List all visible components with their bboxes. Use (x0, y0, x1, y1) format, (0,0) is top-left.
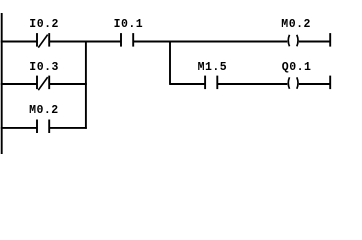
contact I0.2 (37, 33, 49, 48)
svg-text:I0.1: I0.1 (114, 18, 144, 31)
coil Q0.1 (288, 77, 298, 89)
right terminal bar rung1 (329, 33, 331, 47)
svg-text:M1.5: M1.5 (198, 61, 228, 74)
wire rung1 left (1, 41, 37, 43)
coil M0.2 (288, 35, 298, 47)
contact I0.1 (121, 33, 133, 47)
wire output rung2 to terminal (299, 83, 330, 85)
contact I0.3 (37, 76, 49, 91)
svg-text:M0.2: M0.2 (29, 104, 59, 117)
branch junction 1 (85, 41, 87, 129)
left power rail (1, 13, 3, 154)
wire rung1 mid (49, 41, 121, 43)
contact M0.2 (bottom) (37, 120, 49, 134)
wire rung1 right (133, 41, 287, 43)
contact M1.5 (205, 76, 217, 90)
wire rung3 left (1, 127, 37, 129)
branch junction 2 (169, 41, 171, 85)
svg-text:M0.2: M0.2 (281, 18, 311, 31)
wire output rung2 mid (217, 83, 287, 85)
wire output rung2 left (170, 83, 205, 85)
svg-text:I0.2: I0.2 (29, 18, 59, 31)
svg-text:Q0.1: Q0.1 (282, 61, 312, 74)
wire rung1 to terminal (299, 41, 330, 43)
right terminal bar rung2 (329, 76, 331, 90)
wire rung2 left (1, 83, 37, 85)
svg-text:I0.3: I0.3 (29, 61, 59, 74)
wire rung3 to junction (49, 127, 87, 129)
wire rung2 to junction (49, 83, 87, 85)
